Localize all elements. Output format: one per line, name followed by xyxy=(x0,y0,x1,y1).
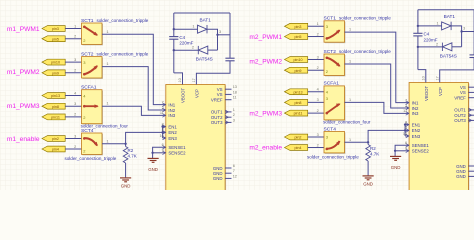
svg-text:10: 10 xyxy=(160,134,164,138)
svg-text:3: 3 xyxy=(317,133,319,137)
svg-text:2: 2 xyxy=(74,69,76,73)
wire xyxy=(65,138,81,140)
svg-text:OUT3: OUT3 xyxy=(454,118,466,123)
ground SENSE xyxy=(148,158,159,162)
ground SENSE xyxy=(390,156,401,160)
switch glyph SCT4 xyxy=(327,141,340,149)
wire BAT54S anode xyxy=(208,49,218,51)
capacitor C5 xyxy=(225,58,234,61)
svg-text:GND: GND xyxy=(213,176,223,181)
svg-text:IN1: IN1 xyxy=(412,100,419,105)
port pin3 (m1) xyxy=(42,26,65,32)
svg-text:solder_connection_tripple: solder_connection_tripple xyxy=(97,51,149,56)
wire SENSE1 xyxy=(395,145,409,156)
svg-text:7: 7 xyxy=(162,100,164,104)
svg-text:17: 17 xyxy=(435,76,439,80)
svg-text:VCP: VCP xyxy=(438,87,443,96)
wire SCFA1 out to IN3 xyxy=(345,102,410,113)
svg-text:EN3: EN3 xyxy=(412,134,421,139)
port pin10 (m1) xyxy=(42,59,65,65)
svg-text:1: 1 xyxy=(74,24,76,28)
svg-text:C4: C4 xyxy=(179,35,185,40)
svg-text:1: 1 xyxy=(107,102,109,106)
svg-text:SCT4: SCT4 xyxy=(324,126,337,132)
svg-text:1: 1 xyxy=(349,28,351,32)
svg-text:EN1: EN1 xyxy=(168,124,177,129)
wire EN3 stub xyxy=(163,137,166,139)
port pin8 (m2) xyxy=(285,100,308,106)
wire EN2 stub xyxy=(163,131,166,133)
svg-text:pin4: pin4 xyxy=(295,146,302,150)
wire pump left vertical xyxy=(417,10,419,33)
svg-text:BAT1: BAT1 xyxy=(444,14,456,19)
port pin2 (m1) xyxy=(42,136,65,142)
capacitor C4 xyxy=(169,37,178,40)
solder-connection switch SCFA1 (m2) xyxy=(324,86,346,121)
svg-text:C4: C4 xyxy=(424,32,430,37)
wire EN1 stub xyxy=(405,124,409,126)
node C4 bottom xyxy=(417,46,419,48)
svg-text:solder_connection_four: solder_connection_four xyxy=(81,123,129,128)
node diode junction xyxy=(460,30,462,32)
svg-text:3: 3 xyxy=(233,118,235,122)
wire xyxy=(308,69,324,71)
svg-text:IN3: IN3 xyxy=(412,111,419,116)
wire SCT4 out to EN bus xyxy=(345,130,406,142)
wire junction to VCP cap xyxy=(462,31,474,33)
node EN1 xyxy=(404,123,406,125)
solder-connection switch SCT1 (m2) xyxy=(324,21,346,43)
port pin9 (m1) xyxy=(42,70,65,76)
wire EN bus xyxy=(404,125,406,136)
svg-text:solder_connection_tripple: solder_connection_tripple xyxy=(97,18,149,23)
wire VBOOT xyxy=(173,72,175,74)
svg-text:9: 9 xyxy=(162,149,164,153)
svg-text:EN1: EN1 xyxy=(412,122,421,127)
node EN junction xyxy=(124,143,126,145)
svg-text:VBOOT: VBOOT xyxy=(424,85,429,101)
switch glyph SCT2 xyxy=(327,58,340,67)
wire SCT2 out to IN2 xyxy=(102,67,166,110)
wire xyxy=(65,105,81,107)
solder-connection switch SCFA1 (m1) xyxy=(82,90,104,125)
svg-text:pin3: pin3 xyxy=(295,25,302,29)
svg-text:OUT3: OUT3 xyxy=(211,120,223,125)
svg-text:pin13: pin13 xyxy=(51,94,60,98)
svg-text:2: 2 xyxy=(317,143,319,147)
solder-connection switch SCT4 (m1) xyxy=(82,133,104,155)
port pin13 (m1) xyxy=(42,93,65,99)
solder-connection switch SCT2 (m2) xyxy=(324,54,346,76)
svg-text:3: 3 xyxy=(219,30,221,34)
switch glyph SCT2 xyxy=(84,66,97,74)
svg-text:2: 2 xyxy=(74,145,76,149)
wire VS rail xyxy=(418,9,474,11)
motor driver IC (m2) xyxy=(409,83,469,196)
svg-text:8: 8 xyxy=(405,120,407,124)
svg-text:2: 2 xyxy=(317,32,319,36)
svg-text:IN2: IN2 xyxy=(412,106,419,111)
port pin3 (m2) xyxy=(285,23,308,29)
svg-text:R2: R2 xyxy=(370,146,376,151)
svg-text:3: 3 xyxy=(74,58,76,62)
svg-text:VREF: VREF xyxy=(454,96,466,101)
svg-text:1: 1 xyxy=(349,60,351,64)
wire xyxy=(65,148,81,150)
wire VCP return xyxy=(196,61,230,85)
svg-text:10: 10 xyxy=(422,76,426,80)
node EN2 xyxy=(404,129,406,131)
svg-text:SCT2: SCT2 xyxy=(81,51,94,57)
svg-text:13: 13 xyxy=(233,85,237,89)
wire xyxy=(308,112,324,114)
switch glyph SCT4 xyxy=(84,138,97,145)
svg-text:IN3: IN3 xyxy=(168,113,175,118)
svg-text:IN2: IN2 xyxy=(168,108,175,113)
svg-text:m2_enable: m2_enable xyxy=(249,144,282,151)
svg-text:2: 2 xyxy=(233,113,235,117)
svg-text:solder_connection_four: solder_connection_four xyxy=(323,120,371,125)
svg-text:pin8: pin8 xyxy=(295,101,302,105)
svg-text:IN1: IN1 xyxy=(168,102,175,107)
svg-text:6: 6 xyxy=(233,164,235,168)
svg-text:2: 2 xyxy=(317,109,319,113)
svg-text:2: 2 xyxy=(192,46,194,50)
wire xyxy=(308,25,324,27)
svg-text:1: 1 xyxy=(349,98,351,102)
svg-text:EN2: EN2 xyxy=(412,128,421,133)
svg-text:pin10: pin10 xyxy=(293,58,302,62)
node diode junction xyxy=(216,34,218,36)
svg-text:pin2: pin2 xyxy=(52,137,59,141)
svg-text:m1_PWM1: m1_PWM1 xyxy=(7,26,40,33)
svg-text:4: 4 xyxy=(74,91,76,95)
node C4 top xyxy=(173,28,175,30)
svg-text:1: 1 xyxy=(107,139,109,143)
svg-text:3: 3 xyxy=(74,102,76,106)
node C4 top xyxy=(417,25,419,27)
wire SENSE2 xyxy=(153,152,166,154)
svg-text:5: 5 xyxy=(405,126,407,130)
svg-text:pin5: pin5 xyxy=(52,37,59,41)
node EN2 xyxy=(161,131,163,133)
wire SCT4 out to EN bus xyxy=(102,132,163,143)
node EN junction xyxy=(367,141,369,143)
wire VCP return xyxy=(440,58,474,83)
svg-text:GND: GND xyxy=(391,165,401,170)
svg-text:EN2: EN2 xyxy=(168,130,177,135)
svg-text:18: 18 xyxy=(233,90,237,94)
svg-text:5: 5 xyxy=(162,128,164,132)
port pin10 (m2) xyxy=(285,57,308,63)
svg-text:OUT1: OUT1 xyxy=(211,110,223,115)
svg-text:m2_PWM2: m2_PWM2 xyxy=(249,58,282,65)
svg-text:SCT1: SCT1 xyxy=(81,18,94,24)
wire BAT1 cathode xyxy=(207,29,218,50)
port pin13 (m2) xyxy=(285,89,308,95)
port pin5 (m1) xyxy=(42,36,65,42)
wire xyxy=(308,59,324,61)
wire EN bus xyxy=(162,127,164,138)
svg-text:9: 9 xyxy=(405,147,407,151)
wire SCT1 out to IN1 xyxy=(102,34,166,104)
svg-text:SENSE1: SENSE1 xyxy=(168,145,186,150)
svg-text:pin11: pin11 xyxy=(51,115,60,119)
svg-text:solder_connection_tripple: solder_connection_tripple xyxy=(307,155,359,160)
svg-text:solder_connection_tripple: solder_connection_tripple xyxy=(65,156,117,161)
svg-text:1: 1 xyxy=(317,22,319,26)
svg-text:VBOOT: VBOOT xyxy=(181,87,186,103)
switch glyph SCT1 xyxy=(327,30,340,38)
solder-connection switch SCT1 (m1) xyxy=(82,23,104,45)
svg-text:12: 12 xyxy=(233,174,237,178)
svg-text:17: 17 xyxy=(192,78,196,82)
svg-text:10: 10 xyxy=(178,78,182,82)
port pin4 (m2) xyxy=(285,145,308,151)
svg-text:BAT54S: BAT54S xyxy=(196,57,213,62)
svg-text:8: 8 xyxy=(162,122,164,126)
svg-text:m2_PWM3: m2_PWM3 xyxy=(249,110,282,117)
svg-text:1: 1 xyxy=(107,30,109,34)
svg-text:11: 11 xyxy=(233,96,237,100)
ground below R2 xyxy=(363,176,374,180)
svg-text:SENSE2: SENSE2 xyxy=(168,151,186,156)
svg-text:pin3: pin3 xyxy=(52,27,59,31)
solder-connection switch SCT2 (m1) xyxy=(82,57,104,79)
svg-text:pin4: pin4 xyxy=(52,148,59,152)
wire SCFA1 out to IN3 xyxy=(102,106,166,115)
svg-text:pin8: pin8 xyxy=(52,105,59,109)
port pin5 (m2) xyxy=(285,34,308,40)
svg-text:SENSE2: SENSE2 xyxy=(412,149,430,154)
svg-text:m2_PWM1: m2_PWM1 xyxy=(249,34,282,41)
svg-text:m1_PWM2: m1_PWM2 xyxy=(7,69,40,76)
wire xyxy=(308,101,324,103)
svg-text:3: 3 xyxy=(317,55,319,59)
svg-text:R2: R2 xyxy=(128,148,134,153)
svg-text:GND: GND xyxy=(121,184,131,189)
svg-text:7: 7 xyxy=(405,98,407,102)
wire SCT2 out to IN2 xyxy=(345,64,410,108)
svg-text:VS: VS xyxy=(217,92,223,97)
svg-text:pin9: pin9 xyxy=(52,71,59,75)
svg-text:VCP: VCP xyxy=(195,89,200,98)
svg-text:1: 1 xyxy=(436,21,438,25)
switch glyph SCFA1 xyxy=(84,105,98,107)
svg-text:11: 11 xyxy=(160,111,164,115)
switch glyph SCFA1 xyxy=(327,104,340,113)
solder-connection switch SCT4 (m2) xyxy=(324,132,346,154)
wire SENSE2 xyxy=(395,150,409,152)
svg-text:6: 6 xyxy=(405,141,407,145)
svg-text:2: 2 xyxy=(436,42,438,46)
svg-text:OUT1: OUT1 xyxy=(454,108,466,113)
wire xyxy=(308,147,324,149)
capacitor C4 xyxy=(413,33,422,36)
wire xyxy=(65,95,81,97)
svg-text:3: 3 xyxy=(74,134,76,138)
switch glyph SCT1 xyxy=(84,27,97,35)
capacitor C5 xyxy=(470,55,474,58)
svg-text:pin2: pin2 xyxy=(295,136,302,140)
svg-text:VS: VS xyxy=(460,90,466,95)
svg-text:BAT1: BAT1 xyxy=(200,17,212,22)
diode BAT1 xyxy=(174,28,198,30)
svg-text:SCT4: SCT4 xyxy=(81,128,94,134)
svg-text:SENSE1: SENSE1 xyxy=(412,143,430,148)
resistor R2 xyxy=(367,142,369,144)
svg-text:pin11: pin11 xyxy=(294,112,303,116)
wire EN3 stub xyxy=(405,135,409,137)
port pin9 (m2) xyxy=(285,67,308,73)
wire xyxy=(65,38,81,40)
svg-text:4.7K: 4.7K xyxy=(128,154,137,159)
svg-text:2: 2 xyxy=(74,35,76,39)
svg-text:11: 11 xyxy=(403,109,407,113)
resistor R2 xyxy=(125,144,127,147)
svg-text:1: 1 xyxy=(107,62,109,66)
svg-text:6: 6 xyxy=(162,143,164,147)
wire BAT1 cathode xyxy=(451,26,462,47)
svg-text:2: 2 xyxy=(162,106,164,110)
svg-text:SCT1: SCT1 xyxy=(324,16,337,22)
svg-text:pin9: pin9 xyxy=(295,69,302,73)
svg-text:pin10: pin10 xyxy=(51,61,60,65)
svg-text:4: 4 xyxy=(317,88,319,92)
port pin11 (m2) xyxy=(285,110,308,116)
svg-text:SCT2: SCT2 xyxy=(324,49,337,55)
wire junction to VCP cap xyxy=(218,34,231,36)
motor driver IC (m1) xyxy=(166,85,226,198)
wire xyxy=(65,116,81,118)
port pin4 (m1) xyxy=(42,146,65,152)
node SENSE2 xyxy=(394,150,396,152)
svg-text:2: 2 xyxy=(317,66,319,70)
svg-text:pin13: pin13 xyxy=(293,90,302,94)
node C4 bottom xyxy=(173,49,175,51)
wire BAT54S anode xyxy=(452,46,462,48)
wire VBOOT xyxy=(417,69,419,71)
svg-text:3: 3 xyxy=(317,98,319,102)
svg-text:m1_PWM3: m1_PWM3 xyxy=(7,103,40,110)
wire xyxy=(308,91,324,93)
wire EN2 stub xyxy=(405,129,409,131)
svg-text:4.7K: 4.7K xyxy=(370,152,379,157)
svg-text:VREF: VREF xyxy=(211,98,223,103)
wire xyxy=(65,61,81,63)
svg-text:2: 2 xyxy=(405,104,407,108)
svg-text:1: 1 xyxy=(349,138,351,142)
diode BAT1 xyxy=(418,25,442,27)
svg-text:7: 7 xyxy=(233,169,235,173)
node SENSE2 xyxy=(151,152,153,154)
svg-text:solder_connection_tripple: solder_connection_tripple xyxy=(339,16,391,21)
wire pump left vertical xyxy=(173,13,175,36)
svg-text:3: 3 xyxy=(463,27,465,31)
svg-text:SCFA1: SCFA1 xyxy=(324,81,340,87)
port pin8 (m1) xyxy=(42,103,65,109)
wire SENSE1 xyxy=(153,147,166,158)
svg-text:10: 10 xyxy=(403,132,407,136)
wire VS rail xyxy=(174,12,230,14)
port pin11 (m1) xyxy=(42,114,65,120)
svg-text:1: 1 xyxy=(192,25,194,29)
svg-text:2: 2 xyxy=(74,113,76,117)
wire xyxy=(308,36,324,38)
svg-text:EN3: EN3 xyxy=(168,136,177,141)
wire xyxy=(65,72,81,74)
ground below R2 xyxy=(120,178,131,182)
diode BAT54S xyxy=(174,49,199,51)
wire xyxy=(65,28,81,30)
svg-text:m1_enable: m1_enable xyxy=(7,136,40,143)
port pin2 (m2) xyxy=(285,134,308,140)
svg-text:1: 1 xyxy=(233,108,235,112)
svg-text:GND: GND xyxy=(363,182,373,187)
node EN1 xyxy=(161,125,163,127)
svg-text:GND: GND xyxy=(148,167,158,172)
wire SCT1 out to IN1 xyxy=(345,32,410,103)
svg-text:pin5: pin5 xyxy=(295,35,302,39)
diode BAT54S xyxy=(418,46,443,48)
svg-text:GND: GND xyxy=(456,174,466,179)
wire EN1 stub xyxy=(163,126,166,128)
wire xyxy=(308,136,324,138)
svg-text:solder_connection_tripple: solder_connection_tripple xyxy=(339,49,391,54)
svg-text:SCFA1: SCFA1 xyxy=(81,85,97,91)
svg-text:BAT54S: BAT54S xyxy=(440,53,457,58)
